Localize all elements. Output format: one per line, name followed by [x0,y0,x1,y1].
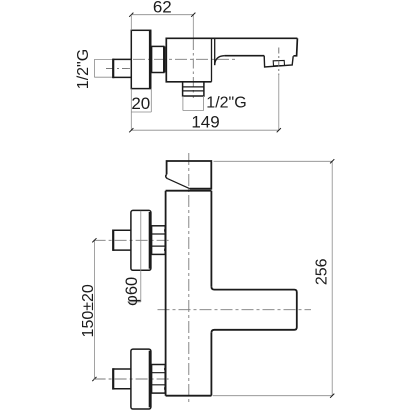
lower flange (front view) [131,349,151,409]
handle nub arc [166,174,168,178]
lower union centerline [94,378,172,380]
dimension 256: line and ticks [331,161,333,395]
flange (top view) [131,30,150,88]
faucet body (top view) [166,38,211,82]
handle (front view) [167,161,212,189]
dimension 20: extensions and line [131,89,151,131]
spout centerline (horizontal dash-dot) [158,309,312,311]
upper flange (front view) [131,210,151,270]
outlet axis / 62-dim extension (vertical) [192,15,194,40]
150±20 dimension line [93,240,95,379]
spout tip and underside [224,38,297,56]
spout top edge [212,37,298,39]
upper union centerline [94,239,172,241]
dimension 62: line and ticks [131,14,193,16]
svg-text:256: 256 [314,258,331,285]
body centerline (vertical dash-dot) [188,153,190,404]
nipple centerline (horizontal dash-dot, offset) [106,68,131,70]
svg-text:1/2"G: 1/2"G [206,94,246,111]
svg-text:φ60: φ60 [123,277,141,306]
spout underside curve to body [215,56,225,65]
dimension 62 extension (left) [130,15,132,31]
aerator centerline / 149-dim extension [278,48,280,76]
spout (front view) with fillets [211,287,296,333]
svg-text:62: 62 [153,0,172,17]
aerator inner rectangle [273,60,284,65]
outlet label extensions [183,96,204,111]
1/2"G bracket extension lines (left) [94,59,113,77]
outlet below body (top view) [183,82,204,96]
svg-text:1/2"G: 1/2"G [75,49,92,89]
body right edge double line [212,38,215,82]
256 bottom extension line [213,395,332,397]
aerator (top view) [264,56,293,67]
lower hex nut (front view) [152,365,166,394]
lower nipple (front view) [113,369,131,389]
256 top extension line [214,160,333,162]
axis centerline of body (horizontal dash-dot) [133,58,237,60]
phi60 leader line through flange [128,211,141,302]
wall nipple (top view) [113,59,131,77]
svg-text:20: 20 [131,94,150,113]
faucet body (front view) [166,191,212,396]
upper hex nut (front view) [152,226,166,255]
svg-text:149: 149 [191,112,219,131]
dimension 149: line and ticks [131,129,278,131]
upper nipple (front view) [113,230,131,250]
small block between flange and body (top view) [152,46,164,72]
svg-text:150±20: 150±20 [80,284,97,337]
